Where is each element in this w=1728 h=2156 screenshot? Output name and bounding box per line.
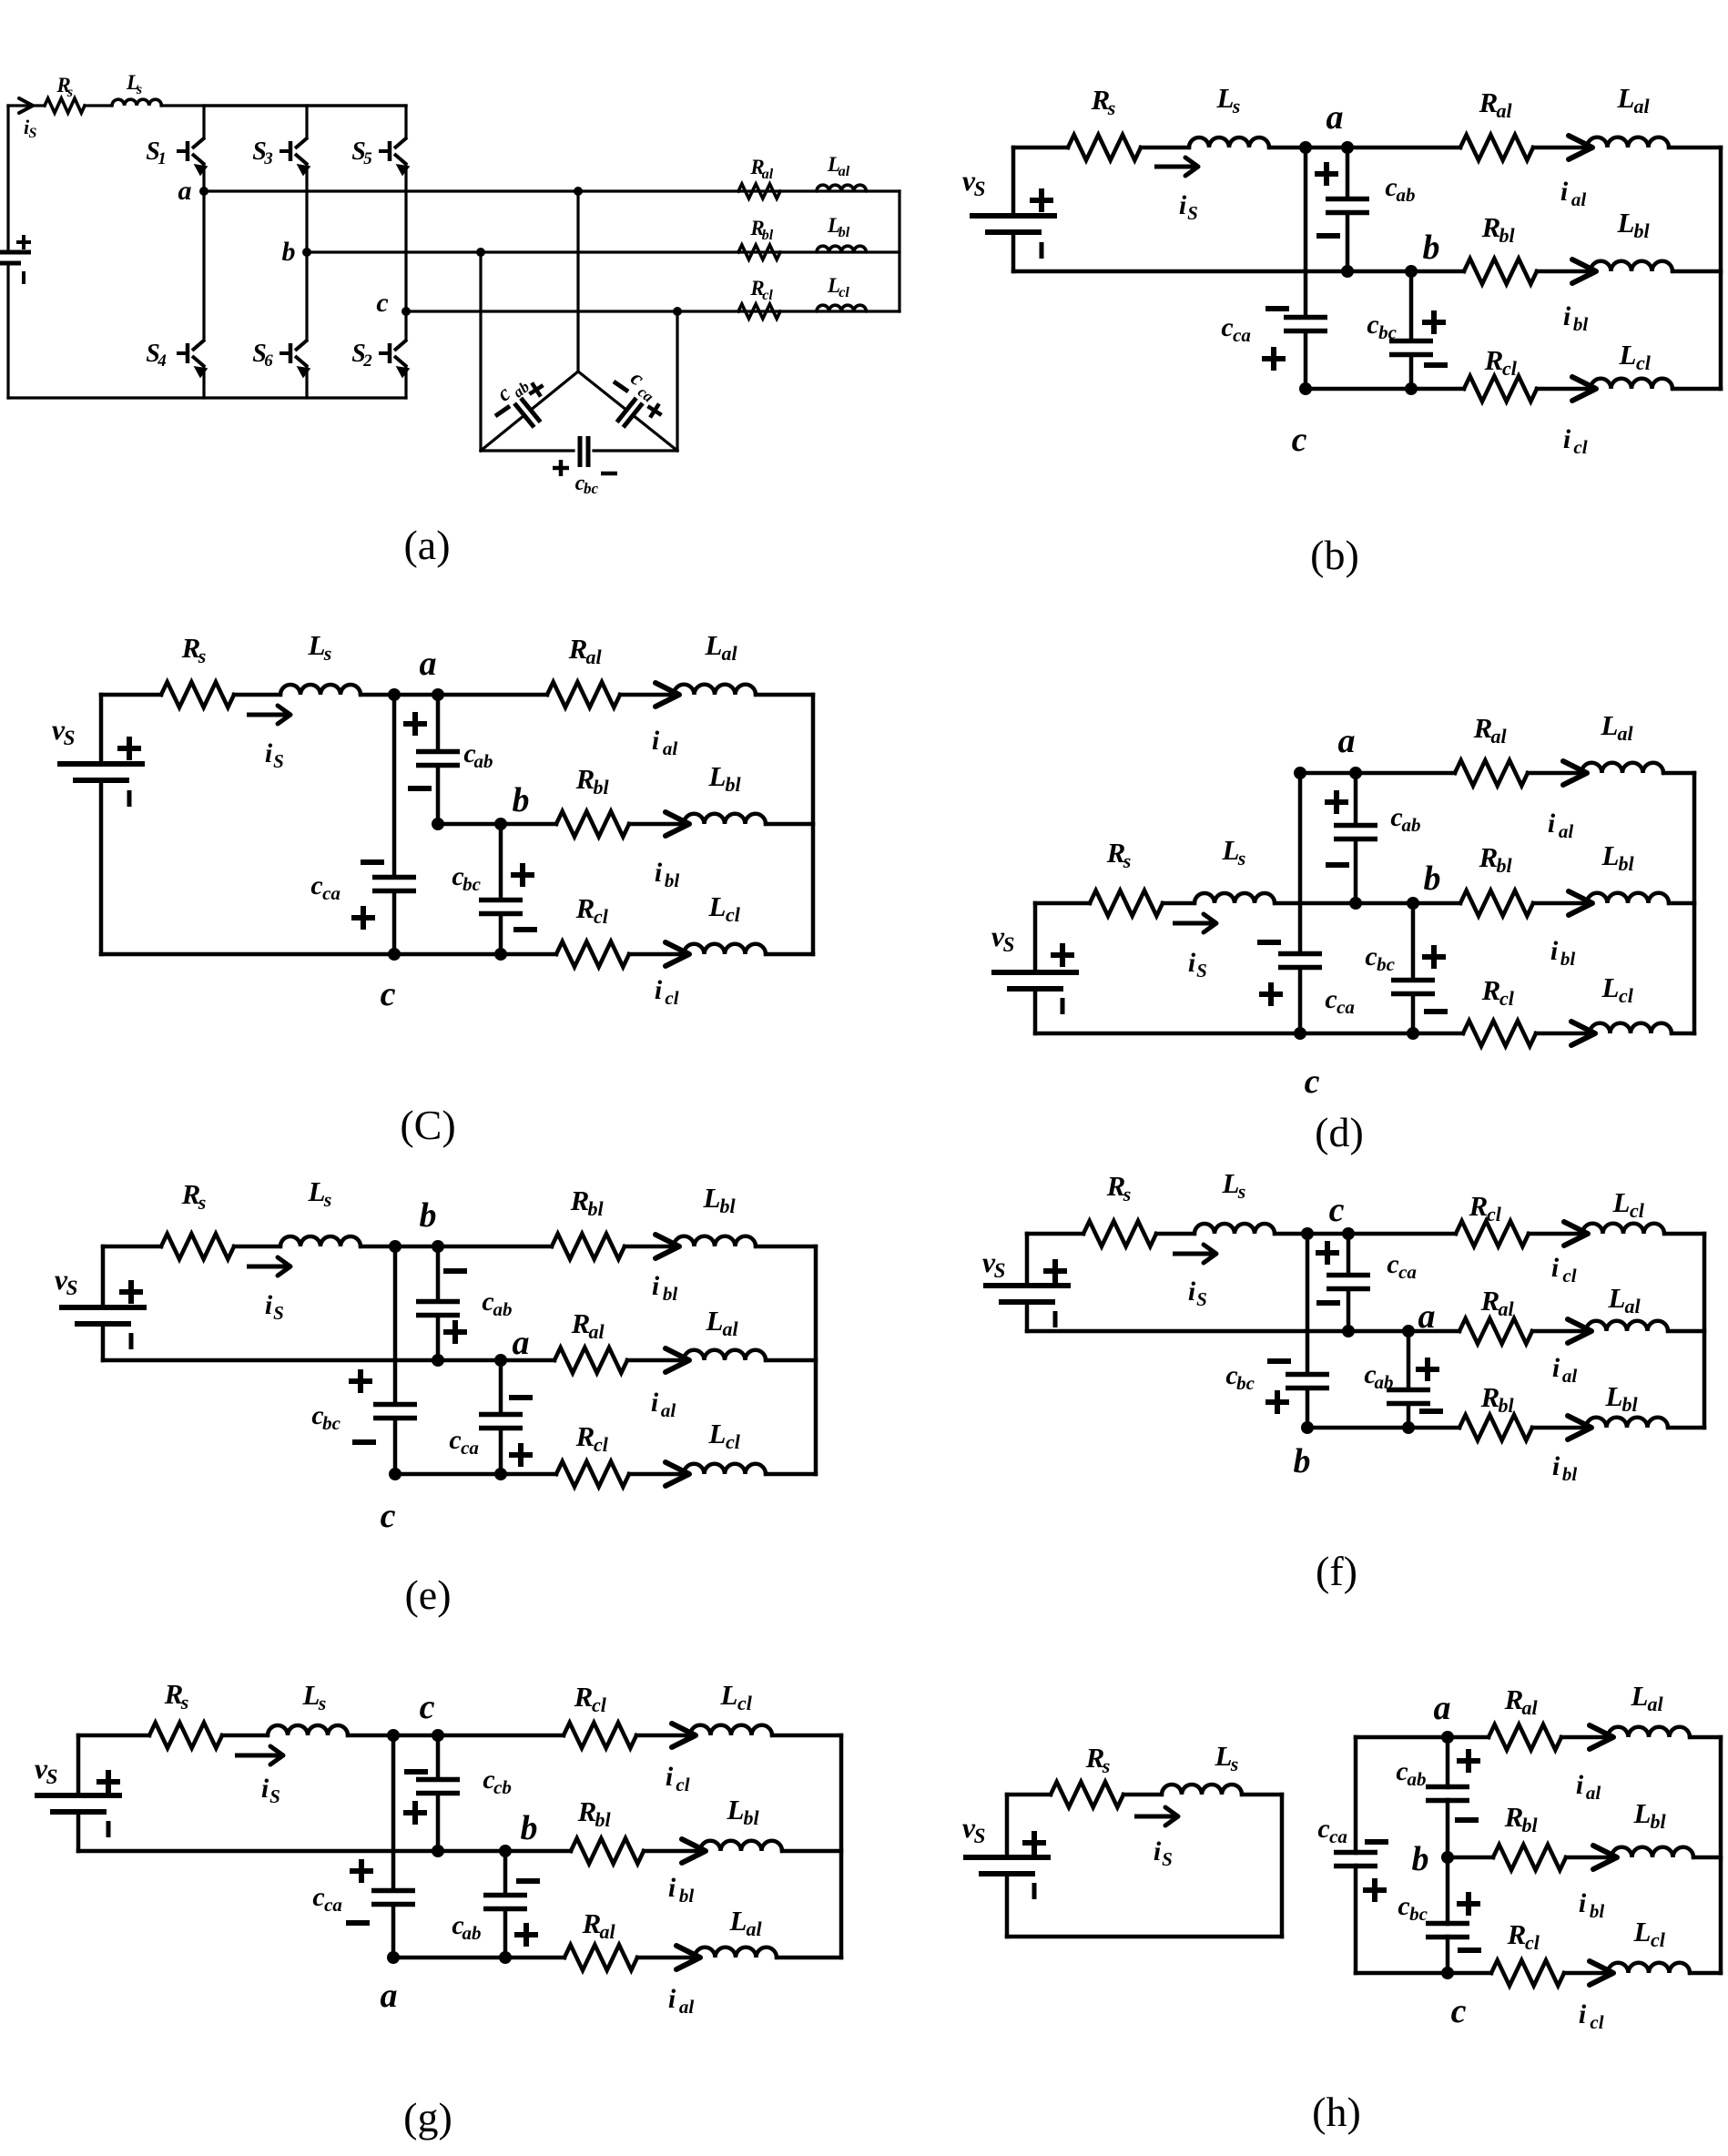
polarity minus of Cab xyxy=(495,406,510,416)
wire right rail joining three loads xyxy=(1719,1737,1723,1973)
svg-text:S: S xyxy=(64,727,76,749)
svg-text:s: s xyxy=(198,1191,207,1214)
inductor Lal xyxy=(674,685,756,695)
wire Lbl to right rail xyxy=(766,822,813,827)
wire leg of S2 xyxy=(404,311,407,340)
svg-text:(d): (d) xyxy=(1315,1109,1364,1155)
junction phase b to delta left xyxy=(476,248,485,257)
junction node b xyxy=(1441,1851,1454,1864)
junction node a xyxy=(1441,1731,1454,1744)
inductor Lcl xyxy=(1608,1963,1690,1973)
svg-text:b: b xyxy=(420,1196,437,1235)
wire Rs to Ls xyxy=(234,693,280,697)
svg-text:al: al xyxy=(1647,1693,1663,1715)
current arrow ial xyxy=(1568,1319,1591,1343)
svg-text:R: R xyxy=(570,1185,590,1216)
polarity plus of Cab xyxy=(443,1329,467,1335)
polarity plus of vs xyxy=(117,746,141,751)
inductor Lal xyxy=(1581,763,1663,773)
svg-text:cl: cl xyxy=(1573,436,1587,458)
svg-text:S: S xyxy=(974,1825,986,1847)
junction node b at Cab branch xyxy=(432,1240,444,1253)
label Cab xyxy=(493,370,533,409)
svg-text:s: s xyxy=(1230,1753,1239,1775)
wire leg of S5 xyxy=(404,106,407,137)
polarity plus of Cbc xyxy=(1266,1399,1289,1405)
junction node a at Cab branch xyxy=(432,688,444,701)
wire vertical Cbc branch xyxy=(1306,1234,1310,1375)
svg-text:a: a xyxy=(1326,98,1344,137)
svg-text:R: R xyxy=(1504,1683,1524,1715)
junction node c at Cbc bottom xyxy=(494,948,507,961)
wire phase b to delta left corner xyxy=(479,252,482,451)
svg-text:cl: cl xyxy=(1525,1931,1540,1954)
wire vertical Cab branch xyxy=(1354,773,1358,826)
label Cca xyxy=(624,367,664,406)
svg-text:s: s xyxy=(1107,97,1116,119)
svg-text:c: c xyxy=(310,870,322,900)
wire Ral to Lal with current arrow xyxy=(1532,1329,1588,1334)
phase c wire xyxy=(406,310,900,312)
svg-text:cl: cl xyxy=(1499,987,1515,1010)
inductor Lal xyxy=(817,185,866,191)
svg-text:L: L xyxy=(720,1679,738,1711)
svg-text:cl: cl xyxy=(1487,1203,1502,1225)
current arrow icl xyxy=(672,1724,696,1747)
junction node b at Cab bottom xyxy=(1349,897,1362,910)
wire Lbl to right rail xyxy=(1669,901,1694,906)
wire battery bottom to mid node region xyxy=(103,1358,554,1363)
polarity plus of Cbc xyxy=(1457,1901,1480,1907)
inductor Lbl xyxy=(1611,1847,1693,1857)
wire source loop bottom xyxy=(1007,1935,1282,1939)
resistor Rbl xyxy=(552,1234,625,1259)
svg-text:L: L xyxy=(708,760,727,792)
junction node c at Cbc bottom xyxy=(1407,1027,1419,1040)
svg-text:(b): (b) xyxy=(1310,532,1359,578)
polarity plus of Ccb xyxy=(403,1810,427,1815)
polarity plus of Cab xyxy=(1457,1758,1480,1764)
polarity minus of Cca xyxy=(346,1920,370,1926)
polarity plus of Cab xyxy=(525,379,548,402)
svg-text:c: c xyxy=(1325,984,1337,1014)
inductor Lal xyxy=(695,1948,777,1958)
svg-text:i: i xyxy=(1552,1353,1560,1383)
svg-text:S: S xyxy=(1196,1288,1207,1310)
svg-text:cl: cl xyxy=(594,905,609,928)
wire vs to Rs xyxy=(1027,1232,1083,1236)
capacitor Cab xyxy=(1326,197,1369,202)
svg-text:R: R xyxy=(568,633,588,665)
polarity minus of Cbc xyxy=(1424,362,1448,368)
wire Rs to Ls xyxy=(1123,1793,1162,1797)
resistor Rs xyxy=(149,1723,222,1748)
polarity minus of Cca xyxy=(1365,1839,1388,1845)
wire Lal to right rail xyxy=(766,1358,816,1363)
svg-text:bc: bc xyxy=(1378,321,1398,343)
svg-text:c: c xyxy=(449,1425,461,1455)
capacitor Cca xyxy=(479,1412,523,1418)
svg-text:bl: bl xyxy=(1496,854,1512,877)
polarity minus of Cca xyxy=(509,1395,533,1400)
capacitor Cca (delta right diagonal) xyxy=(578,371,626,410)
polarity plus of Cca xyxy=(1363,1887,1387,1893)
svg-text:al: al xyxy=(1496,99,1512,122)
wire Ral to Lal with current arrow xyxy=(627,1358,686,1363)
wire Cab to node b xyxy=(1446,1800,1450,1857)
voltage source vs (isolated source loop) xyxy=(1005,1795,1010,1856)
wire Lbl to right rail xyxy=(1693,1856,1721,1860)
wire vertical Cbc branch xyxy=(499,824,503,900)
svg-text:R: R xyxy=(575,763,595,795)
wire Ls to top node and load (top row) xyxy=(348,1734,564,1738)
current arrow ial xyxy=(1569,136,1592,159)
polarity minus of vs xyxy=(1040,242,1044,259)
svg-text:b: b xyxy=(282,237,296,267)
polarity plus of vs xyxy=(1043,1268,1067,1274)
junction node c at left vertical bottom xyxy=(389,1468,402,1480)
current arrow ibl xyxy=(1569,891,1592,915)
polarity plus of vs xyxy=(97,1779,120,1785)
resistor Rbl xyxy=(571,1838,644,1864)
wire vertical Cca branch xyxy=(1304,147,1308,318)
svg-text:bc: bc xyxy=(1377,953,1396,975)
polarity minus of vs xyxy=(1053,1311,1058,1327)
svg-text:S: S xyxy=(1187,202,1198,224)
wire Ral to Lal with current arrow xyxy=(1533,146,1589,150)
junction node c at Cca bottom xyxy=(494,1468,507,1480)
svg-text:cl: cl xyxy=(839,285,849,300)
resistor Ral xyxy=(1459,1318,1532,1344)
svg-text:al: al xyxy=(1624,1295,1641,1317)
junction node b at Cab bottom xyxy=(1341,265,1354,278)
polarity minus of Cbc xyxy=(1267,1358,1291,1364)
polarity minus of Cab xyxy=(1316,233,1340,239)
polarity plus of Cbc xyxy=(1422,954,1446,960)
polarity minus of vs xyxy=(129,1333,134,1349)
polarity plus of Cca xyxy=(1262,356,1286,361)
junction node b at left vertical bottom xyxy=(1301,1421,1314,1434)
wire vertical Cca branch xyxy=(1347,1234,1351,1276)
wire left vertical bottom to node c xyxy=(1356,1971,1448,1976)
svg-text:ca: ca xyxy=(1233,324,1251,346)
wire vertical Cbc branch xyxy=(393,1246,398,1405)
resistor Rbl xyxy=(738,245,780,259)
wire Rbl to Lbl with current arrow xyxy=(644,1849,702,1854)
svg-text:c: c xyxy=(1329,1191,1345,1229)
polarity minus of battery xyxy=(22,271,25,284)
wire vs to Rs xyxy=(1035,901,1090,906)
svg-text:i: i xyxy=(265,1290,273,1320)
wire Rbl to Lbl with current arrow xyxy=(1533,901,1589,906)
svg-text:ab: ab xyxy=(474,750,493,772)
svg-text:bl: bl xyxy=(743,1806,759,1829)
current arrow is xyxy=(247,1265,288,1269)
wire Ral to Lal with current arrow xyxy=(1561,1735,1610,1740)
svg-text:bl: bl xyxy=(719,1195,736,1217)
phase b wire xyxy=(307,250,900,253)
svg-text:al: al xyxy=(679,1996,695,2018)
svg-text:al: al xyxy=(1498,1297,1514,1320)
svg-text:i: i xyxy=(1188,948,1196,978)
wire Rs to Ls xyxy=(234,1245,280,1249)
svg-text:s: s xyxy=(66,85,73,100)
resistor Ral xyxy=(554,1347,627,1373)
polarity plus of Cca xyxy=(351,915,375,920)
svg-text:cl: cl xyxy=(1636,351,1652,374)
wire Lal to right rail xyxy=(1669,146,1721,150)
polarity plus of vs xyxy=(119,1289,143,1295)
polarity minus of Cab xyxy=(408,786,432,791)
current arrow ibl xyxy=(1593,1846,1617,1869)
polarity minus of Cab xyxy=(516,1878,540,1884)
switch S4 xyxy=(177,351,188,355)
svg-text:a: a xyxy=(178,176,192,206)
svg-text:c: c xyxy=(381,1497,396,1535)
capacitor Cca xyxy=(372,875,416,880)
svg-text:bc: bc xyxy=(1409,1903,1428,1925)
wire Rs to Ls xyxy=(1141,146,1189,150)
svg-text:L: L xyxy=(705,629,723,661)
svg-text:(C): (C) xyxy=(400,1102,455,1148)
svg-text:b: b xyxy=(513,781,530,819)
wire Lal to right rail xyxy=(1690,1735,1721,1740)
polarity minus of vs xyxy=(1032,1883,1037,1899)
svg-text:cl: cl xyxy=(676,1774,689,1795)
resistor Rs xyxy=(1051,1782,1123,1807)
svg-text:i: i xyxy=(1579,1888,1587,1918)
current arrow ial xyxy=(1563,761,1587,785)
svg-text:i: i xyxy=(668,1984,676,2014)
junction node a at Cca bottom xyxy=(1342,1325,1355,1337)
polarity plus of Cab xyxy=(1325,799,1348,805)
inductor Lal xyxy=(1587,137,1669,147)
svg-text:a: a xyxy=(1434,1689,1451,1727)
svg-text:i: i xyxy=(1579,1999,1587,2029)
polarity plus of Cca xyxy=(1259,992,1283,997)
wire bottom row left vertical to load xyxy=(1306,387,1464,392)
svg-text:i: i xyxy=(1548,808,1556,839)
svg-text:al: al xyxy=(663,737,678,759)
svg-text:R: R xyxy=(1469,1190,1489,1222)
svg-text:L: L xyxy=(1633,1797,1652,1829)
svg-text:cl: cl xyxy=(1630,1199,1645,1222)
svg-text:L: L xyxy=(308,629,326,661)
polarity minus of vs xyxy=(127,790,132,807)
wire Lcl to right rail xyxy=(1672,1032,1694,1036)
wire node c to Rcl xyxy=(1448,1971,1491,1976)
wire leg of S6 xyxy=(305,252,308,340)
junction node b at Cab bottom xyxy=(1402,1421,1415,1434)
wire battery bottom to mid node region xyxy=(1013,269,1464,274)
svg-text:bc: bc xyxy=(1236,1372,1255,1394)
svg-text:R: R xyxy=(1484,344,1504,376)
wire vertical Cab branch xyxy=(1346,147,1350,199)
svg-text:cl: cl xyxy=(737,1692,753,1714)
svg-text:c: c xyxy=(1367,310,1378,340)
polarity minus of Ccb xyxy=(404,1769,428,1775)
capacitor Cbc xyxy=(373,1402,417,1408)
current arrow ial xyxy=(1590,1725,1613,1749)
svg-text:al: al xyxy=(1586,1782,1601,1804)
svg-text:bl: bl xyxy=(725,773,741,796)
svg-text:a: a xyxy=(1418,1297,1436,1336)
wire node b to Cbc xyxy=(1446,1857,1450,1924)
svg-text:b: b xyxy=(521,1809,538,1847)
inductor Lal xyxy=(1586,1321,1668,1331)
svg-text:L: L xyxy=(302,1679,320,1711)
inverter bottom rail xyxy=(8,396,406,399)
svg-text:i: i xyxy=(1551,1253,1560,1283)
svg-text:al: al xyxy=(1617,722,1633,745)
current arrow is xyxy=(1173,1252,1214,1256)
wire left vertical top to node a xyxy=(1356,1735,1448,1740)
wire Ls to inverter top rail xyxy=(161,104,406,107)
wire Rcl to Lcl with current arrow xyxy=(1536,1032,1591,1036)
svg-text:s: s xyxy=(1123,849,1132,872)
resistor Ral xyxy=(1489,1724,1561,1750)
resistor Rcl xyxy=(1491,1960,1564,1986)
switch S1 xyxy=(177,149,188,153)
junction node a at left vertical xyxy=(1294,767,1306,779)
inductor Lcl xyxy=(1590,1023,1672,1033)
inductor Lbl xyxy=(684,814,766,824)
wire bottom row left vertical to load xyxy=(395,1472,556,1477)
wire Lcl to right rail xyxy=(1690,1971,1721,1976)
svg-text:c: c xyxy=(420,1688,435,1726)
svg-text:bc: bc xyxy=(462,873,482,895)
polarity plus of Cca xyxy=(509,1452,533,1458)
wire Lal to right rail xyxy=(1663,771,1694,776)
svg-text:s: s xyxy=(180,1691,189,1714)
svg-text:ca: ca xyxy=(324,1894,342,1916)
current arrow icl xyxy=(1564,1222,1588,1246)
polarity minus of Cab xyxy=(443,1268,467,1274)
svg-text:cl: cl xyxy=(726,903,741,926)
svg-text:L: L xyxy=(1617,82,1635,114)
svg-text:ab: ab xyxy=(1408,1768,1427,1790)
polarity plus of Cbc xyxy=(349,1378,372,1384)
wire mid row from Cab corner to load xyxy=(438,822,556,827)
voltage source vs xyxy=(101,1246,106,1306)
svg-text:c: c xyxy=(1387,1249,1398,1279)
current arrow ial xyxy=(666,1348,689,1372)
svg-text:a: a xyxy=(513,1324,530,1362)
polarity minus of Cca xyxy=(1257,940,1281,945)
phase a wire xyxy=(204,189,900,192)
junction node c at Ccb branch xyxy=(432,1729,444,1742)
polarity minus of vs xyxy=(1061,998,1065,1014)
svg-text:i: i xyxy=(1188,1276,1196,1307)
svg-text:cl: cl xyxy=(762,288,773,303)
wire bottom row left vertical to load xyxy=(1307,1426,1459,1430)
node c junction xyxy=(402,307,411,316)
capacitor Cbc (delta bottom) xyxy=(578,436,583,467)
current arrow ial xyxy=(676,1946,700,1969)
polarity plus of Cab xyxy=(403,721,427,727)
wire right rail joining three loads xyxy=(1703,1234,1707,1428)
svg-text:(h): (h) xyxy=(1312,2089,1361,2135)
junction node c at Cca branch xyxy=(1342,1227,1355,1240)
wire Rbl to Lbl with current arrow xyxy=(625,1245,676,1249)
svg-text:bl: bl xyxy=(679,1885,695,1907)
wire Ls to top node and load (top row) xyxy=(1269,146,1460,150)
svg-text:ab: ab xyxy=(493,1298,513,1320)
inductor Ls xyxy=(1162,1785,1242,1795)
inductor Lcl xyxy=(1582,1224,1664,1234)
junction node a at left vertical bottom xyxy=(387,1951,400,1964)
current arrow ibl xyxy=(666,812,689,836)
voltage source vs xyxy=(1011,147,1016,214)
svg-text:bc: bc xyxy=(584,480,599,497)
svg-text:S: S xyxy=(1003,933,1015,956)
inductor Lbl xyxy=(674,1236,756,1246)
svg-text:cl: cl xyxy=(1590,2011,1603,2033)
resistor Rcl xyxy=(564,1723,636,1748)
svg-text:L: L xyxy=(1605,1380,1623,1412)
svg-text:2: 2 xyxy=(362,351,372,371)
wire phase a to delta apex xyxy=(576,191,579,371)
svg-text:i: i xyxy=(1154,1836,1162,1866)
resistor Rcl xyxy=(1464,376,1537,402)
svg-text:al: al xyxy=(1633,95,1650,117)
wire right rail joining three loads xyxy=(1692,773,1697,1033)
svg-text:ca: ca xyxy=(1398,1261,1417,1283)
svg-text:4: 4 xyxy=(157,351,167,371)
svg-text:c: c xyxy=(1317,1814,1329,1844)
svg-text:L: L xyxy=(1601,971,1620,1003)
svg-text:bl: bl xyxy=(1521,1814,1538,1836)
svg-text:3: 3 xyxy=(263,149,273,168)
svg-text:S: S xyxy=(1162,1848,1173,1870)
resistor Rs xyxy=(161,682,234,707)
junction node c at left vertical bottom xyxy=(388,948,401,961)
node a junction xyxy=(199,187,208,196)
inductor Ls xyxy=(268,1725,348,1735)
svg-text:c: c xyxy=(1365,941,1377,971)
junction node a at Cab bottom xyxy=(499,1951,512,1964)
svg-text:bl: bl xyxy=(1590,1900,1605,1922)
wire leg of S3 xyxy=(305,106,308,137)
current arrow ibl xyxy=(656,1235,679,1258)
svg-text:c: c xyxy=(1451,1992,1467,2030)
svg-text:c: c xyxy=(312,1882,324,1912)
svg-text:cl: cl xyxy=(592,1693,607,1716)
svg-text:al: al xyxy=(1562,1365,1578,1387)
svg-text:s: s xyxy=(1123,1183,1132,1205)
inductor Ls xyxy=(1189,137,1269,147)
polarity minus of Cca xyxy=(1316,1300,1340,1306)
svg-text:s: s xyxy=(1232,95,1241,117)
resistor Rs xyxy=(45,98,85,113)
svg-text:s: s xyxy=(1237,1180,1246,1203)
capacitor Cca xyxy=(1334,1850,1377,1856)
inductor Lal xyxy=(684,1350,766,1360)
svg-text:R: R xyxy=(1481,974,1501,1006)
polarity minus of Cab xyxy=(1419,1409,1443,1414)
wire phase c to delta right corner xyxy=(676,311,678,451)
wire Ls to top node and load (top row) xyxy=(361,693,547,697)
wire Rcl to Lcl with current arrow xyxy=(1564,1971,1610,1976)
wire vertical Cca branch xyxy=(499,1360,503,1415)
resistor Rbl xyxy=(1459,1415,1532,1440)
wire vs to Rs xyxy=(101,693,161,697)
svg-text:R: R xyxy=(1504,1801,1524,1833)
svg-text:R: R xyxy=(1479,841,1499,873)
polarity minus of vs xyxy=(107,1821,111,1837)
wire right rail joining three loads xyxy=(811,695,816,954)
svg-text:ca: ca xyxy=(1337,996,1355,1018)
